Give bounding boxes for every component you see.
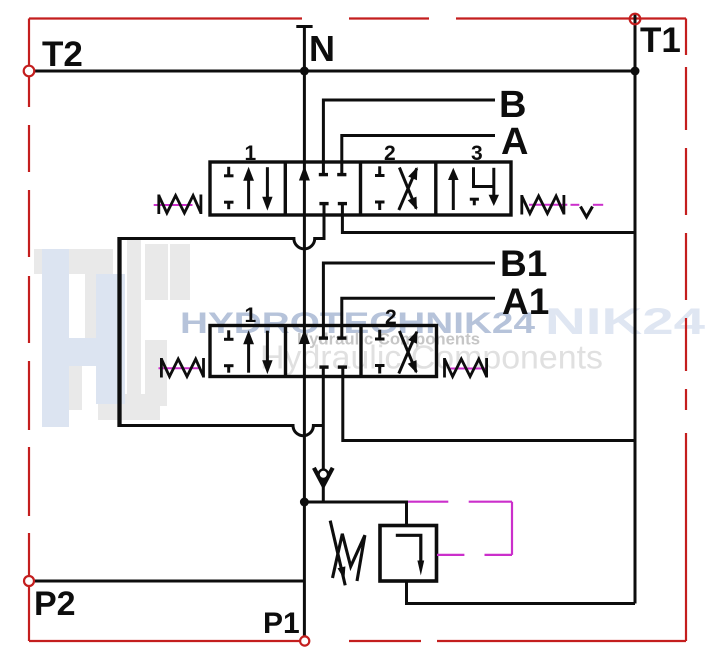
terminal T2 red circle [24, 66, 35, 77]
valve V2 cell2 X symbols [375, 330, 418, 374]
terminal T1 red circle [630, 14, 641, 25]
wire T1 vertical [634, 14, 637, 604]
spring valve2 right [445, 358, 487, 378]
svg-text:2: 2 [384, 142, 396, 165]
relief valve RV adjustable spring [330, 521, 365, 586]
red dashed enclosure bottom [29, 640, 686, 642]
pilot line magenta valve1 right with detent mark [529, 205, 603, 217]
svg-text:P1: P1 [263, 607, 300, 640]
spring valve1 right [522, 195, 564, 215]
wire A [342, 136, 495, 174]
valve V2 body [210, 326, 437, 377]
wire P2 horizontal [34, 580, 305, 583]
node junction P [300, 498, 309, 507]
pilot line magenta valve2 left [159, 367, 199, 369]
wire valve2 feed down to check valve [322, 367, 325, 502]
relief valve RV body [380, 526, 437, 582]
spring valve2 left [161, 358, 203, 378]
wire bypass channel rectangle with crossover humps [120, 237, 325, 436]
svg-text:B1: B1 [500, 243, 547, 284]
valve V1 cell1 symbols [224, 167, 273, 211]
svg-text:1: 1 [245, 304, 257, 327]
svg-text:2: 2 [385, 306, 397, 329]
red dashed enclosure top [29, 17, 686, 19]
watermark logo H blue [42, 249, 125, 427]
wire N vertical [296, 27, 312, 637]
valve V1 center cell symbols [299, 166, 347, 204]
wire B1 [323, 263, 495, 337]
wire P junction to relief valve [304, 502, 406, 526]
svg-text:A: A [501, 121, 528, 163]
valve V1 cell2 X symbols [375, 166, 418, 210]
svg-text:T1: T1 [640, 21, 681, 60]
check valve ball [319, 470, 328, 479]
svg-text:B: B [499, 84, 526, 126]
pilot line magenta valve2 right [450, 368, 487, 370]
valve V1 cell3 float symbols [448, 167, 499, 210]
svg-text:NIK24: NIK24 [545, 301, 706, 342]
svg-text:T2: T2 [42, 35, 83, 74]
wire T2-T1 horizontal [34, 70, 635, 73]
node junction T1 line [631, 67, 640, 76]
valve V2 cell1 symbols [224, 330, 273, 374]
wire A1 [342, 298, 495, 336]
node junction N on T2 line [300, 67, 309, 76]
red dashed enclosure left [28, 19, 30, 642]
watermark logo H gray [34, 240, 190, 420]
svg-text:1: 1 [245, 142, 257, 165]
svg-text:N: N [309, 28, 335, 69]
wire valve2 tank return to T1 [343, 367, 635, 441]
relief valve RV pilot line magenta dashed [408, 502, 512, 555]
terminal P2 red circle [24, 576, 34, 586]
svg-text:A1: A1 [502, 281, 549, 322]
spring valve1 left [159, 195, 201, 215]
relief valve RV internal arrow [396, 535, 424, 575]
valve V2 center cell symbols [299, 329, 347, 367]
wire valve1 bypass port down [323, 204, 326, 241]
wire relief output to T1 [407, 581, 636, 604]
red dashed enclosure right [685, 19, 687, 642]
valve V1 body [210, 162, 511, 215]
check valve ball seat [314, 468, 333, 486]
wire valve1 tank return to T1 [342, 204, 635, 233]
svg-text:P2: P2 [34, 585, 76, 623]
wire B [323, 100, 495, 173]
svg-text:3: 3 [471, 142, 483, 165]
svg-text:Hydraulic Components: Hydraulic Components [260, 339, 603, 376]
terminal P1 red circle [300, 636, 309, 645]
pilot line magenta valve1 left [154, 204, 193, 206]
